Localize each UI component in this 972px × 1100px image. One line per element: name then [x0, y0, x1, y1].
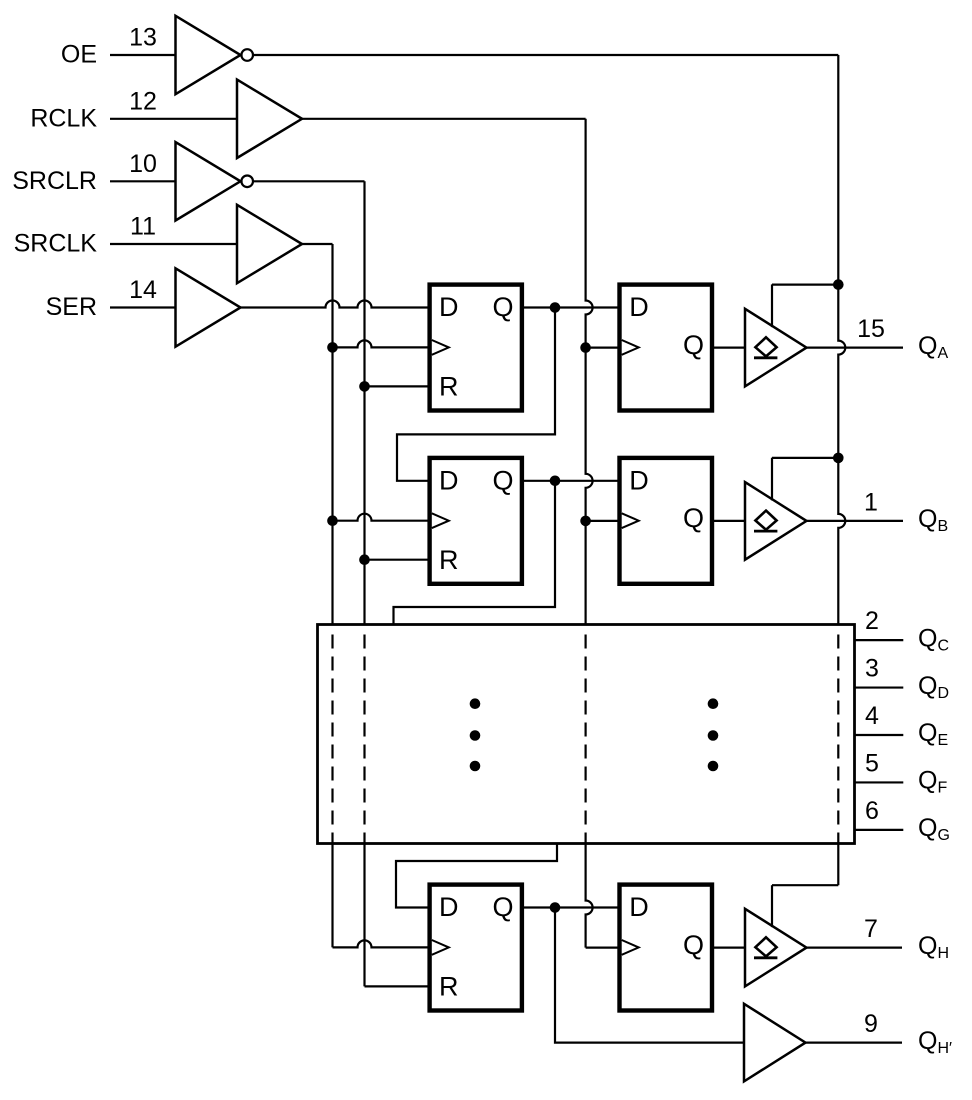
svg-text:10: 10: [129, 150, 157, 178]
svg-text:SRCLR: SRCLR: [12, 167, 97, 195]
svg-text:R: R: [439, 972, 459, 1002]
svg-text:7: 7: [864, 915, 878, 943]
svg-text:RCLK: RCLK: [30, 104, 97, 132]
svg-text:OE: OE: [61, 41, 97, 69]
svg-text:Q: Q: [683, 330, 704, 360]
svg-text:14: 14: [129, 276, 157, 304]
svg-text:3: 3: [865, 655, 879, 683]
svg-text:Q: Q: [683, 930, 704, 960]
svg-text:1: 1: [864, 488, 878, 516]
svg-text:9: 9: [864, 1010, 878, 1038]
svg-text:Q: Q: [493, 465, 514, 495]
svg-text:D: D: [439, 292, 459, 322]
svg-text:5: 5: [865, 749, 879, 777]
svg-text:6: 6: [865, 797, 879, 825]
svg-text:Q: Q: [493, 892, 514, 922]
svg-text:Q: Q: [683, 503, 704, 533]
svg-text:2: 2: [865, 607, 879, 635]
svg-text:15: 15: [857, 315, 885, 343]
svg-text:Q: Q: [493, 292, 514, 322]
svg-text:D: D: [629, 292, 649, 322]
svg-text:D: D: [439, 892, 459, 922]
svg-text:4: 4: [865, 702, 879, 730]
svg-text:D: D: [629, 465, 649, 495]
svg-text:11: 11: [130, 213, 156, 241]
svg-text:SER: SER: [46, 293, 97, 321]
svg-text:R: R: [439, 545, 459, 575]
svg-text:D: D: [439, 465, 459, 495]
svg-text:D: D: [629, 892, 649, 922]
svg-text:SRCLK: SRCLK: [14, 230, 98, 258]
svg-text:13: 13: [129, 24, 157, 52]
svg-text:R: R: [439, 372, 459, 402]
svg-text:12: 12: [129, 87, 157, 115]
